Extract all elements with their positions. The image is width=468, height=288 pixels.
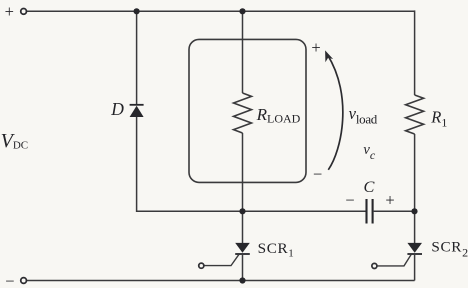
- terminal + (top left): [21, 9, 27, 15]
- resistor RLOAD: [234, 93, 252, 133]
- thyristor SCR2: [407, 243, 422, 253]
- wire right rail mid: [414, 134, 416, 243]
- svg-text:SCR2: SCR2: [431, 239, 468, 260]
- junction bottom SCR1: [239, 277, 245, 283]
- diode D: [130, 104, 144, 106]
- resistor R1: [406, 95, 424, 134]
- svg-text:−: −: [313, 165, 322, 184]
- wire right rail upper: [414, 10, 416, 95]
- svg-text:+: +: [385, 190, 394, 209]
- svg-text:−: −: [5, 271, 14, 288]
- wire mid rail left of capacitor: [243, 210, 366, 212]
- wire load branch upper: [242, 10, 244, 93]
- terminal − (bottom left): [21, 278, 27, 284]
- svg-text:D: D: [110, 99, 124, 119]
- wire diode branch lower: [137, 117, 243, 211]
- wire load branch lower: [242, 133, 244, 211]
- arrow vload: [328, 55, 343, 170]
- wire mid rail right of capacitor: [374, 210, 415, 212]
- svg-text:+: +: [311, 38, 320, 57]
- thyristor SCR1: [235, 243, 250, 253]
- wire right rail lower: [414, 254, 416, 281]
- junction mid SCR1: [239, 208, 245, 214]
- svg-text:+: +: [5, 2, 14, 21]
- svg-text:RLOAD: RLOAD: [256, 105, 301, 126]
- svg-text:R1: R1: [430, 107, 447, 129]
- wire SCR1 branch upper: [242, 211, 244, 243]
- load box: [189, 39, 306, 182]
- junction top diode: [134, 8, 140, 14]
- svg-text:C: C: [364, 177, 376, 196]
- wire top rail: [27, 10, 415, 12]
- junction mid right: [411, 208, 417, 214]
- junction top load: [239, 8, 245, 14]
- wire bottom rail: [27, 280, 415, 282]
- wire SCR1 branch lower: [242, 254, 244, 281]
- wire diode branch upper: [136, 10, 138, 104]
- svg-text:SCR1: SCR1: [258, 240, 295, 259]
- svg-text:vc: vc: [363, 142, 375, 162]
- svg-text:−: −: [345, 190, 354, 209]
- svg-text:vload: vload: [349, 104, 378, 126]
- capacitor C: [365, 199, 367, 224]
- svg-text:VDC: VDC: [1, 130, 29, 152]
